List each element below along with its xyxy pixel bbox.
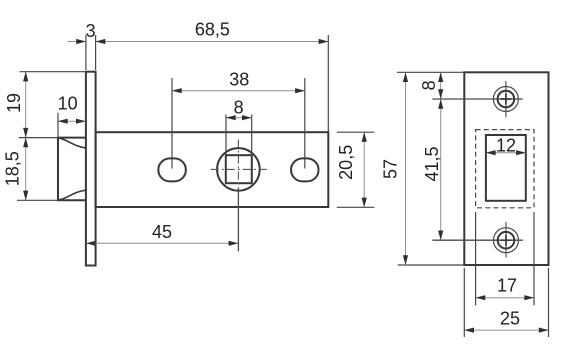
screw hole top: centerline vertical	[505, 81, 507, 118]
dim 25 extension right	[548, 268, 550, 337]
dim 18,5 line	[25, 138, 27, 200]
dim 25 extension left	[463, 268, 465, 337]
dim 38 extension right	[304, 78, 306, 169]
dim 57 extension top	[397, 71, 464, 73]
svg-text:68,5: 68,5	[195, 20, 230, 40]
latch bolt	[58, 138, 86, 201]
screw hole bottom: centerline horizontal / dim 41,5 extension	[432, 239, 523, 241]
svg-text:19: 19	[4, 93, 24, 113]
svg-text:18,5: 18,5	[3, 151, 23, 186]
svg-text:12: 12	[496, 136, 516, 156]
right oval hole	[291, 158, 318, 181]
screw hole top center cross	[500, 94, 511, 105]
svg-text:57: 57	[381, 159, 401, 179]
dim 20,5 extension bottom	[337, 206, 375, 208]
dim 45 line	[86, 242, 238, 244]
bolt bevel curve top	[58, 138, 86, 148]
screw hole bottom inner circle	[498, 232, 515, 249]
svg-text:45: 45	[152, 222, 172, 242]
svg-text:8: 8	[234, 97, 244, 117]
dim 57 line	[405, 73, 407, 265]
dim 20,5 extension top	[337, 131, 375, 133]
screw hole bottom center cross	[501, 235, 512, 246]
dim 8 extension left	[225, 115, 227, 156]
bolt bevel curve bottom	[58, 190, 86, 200]
left oval hole	[158, 158, 185, 181]
faceplate (side view)	[86, 72, 96, 266]
svg-text:8: 8	[419, 80, 439, 90]
dim 20,5 line	[363, 133, 365, 208]
strike plate (front view)	[464, 72, 548, 265]
latch hole rect	[486, 135, 526, 201]
dim 19 extension top	[20, 71, 86, 73]
dim 12 line	[486, 152, 525, 154]
screw hole bottom: centerline vertical	[505, 222, 507, 258]
screw hole bottom outer circle	[494, 228, 519, 253]
dim 68,5 line	[96, 41, 328, 43]
svg-text:3: 3	[86, 21, 96, 41]
dim 17 extension left	[475, 212, 477, 305]
screw hole top inner circle	[498, 91, 515, 108]
dim 8 right line	[440, 73, 442, 99]
dim 57 extension bottom	[398, 264, 464, 266]
node spindle axis extension	[237, 188, 239, 251]
dashed pocket outline	[476, 130, 534, 208]
svg-text:17: 17	[497, 276, 517, 296]
svg-text:10: 10	[58, 93, 78, 113]
dim 8 line	[226, 117, 251, 119]
dim 3 extension left	[85, 35, 87, 70]
screw hole top: centerline horizontal / dim 8 extension	[432, 98, 523, 100]
dim 25 line	[465, 329, 549, 331]
dim 19 line	[25, 72, 27, 137]
svg-text:20,5: 20,5	[336, 145, 356, 180]
dim 17 line	[476, 297, 534, 299]
spindle square	[226, 155, 252, 183]
screw hole top outer circle	[493, 87, 518, 112]
dim 3 extension right	[95, 35, 97, 70]
dim 3 leader line	[68, 41, 86, 43]
svg-text:41,5: 41,5	[422, 146, 442, 181]
latch body	[96, 132, 329, 207]
dim 38 extension left	[171, 78, 173, 169]
dim 8 extension right	[251, 115, 253, 156]
dim 10 line	[58, 120, 85, 122]
dim 10 extension left	[57, 113, 59, 137]
centerline vertical	[237, 140, 239, 189]
dim 41,5 line	[440, 99, 442, 240]
dim 68,5 extension right	[327, 35, 329, 132]
dim 18,5 extension (bolt top edge extended)	[19, 137, 58, 139]
svg-text:38: 38	[229, 69, 249, 89]
dim 38 line	[172, 90, 304, 92]
spindle circle	[217, 148, 260, 191]
dim 17 extension right	[533, 212, 535, 305]
svg-text:25: 25	[500, 308, 520, 328]
dim 18,5 extension bottom	[17, 199, 58, 201]
centerline horizontal	[211, 168, 268, 170]
